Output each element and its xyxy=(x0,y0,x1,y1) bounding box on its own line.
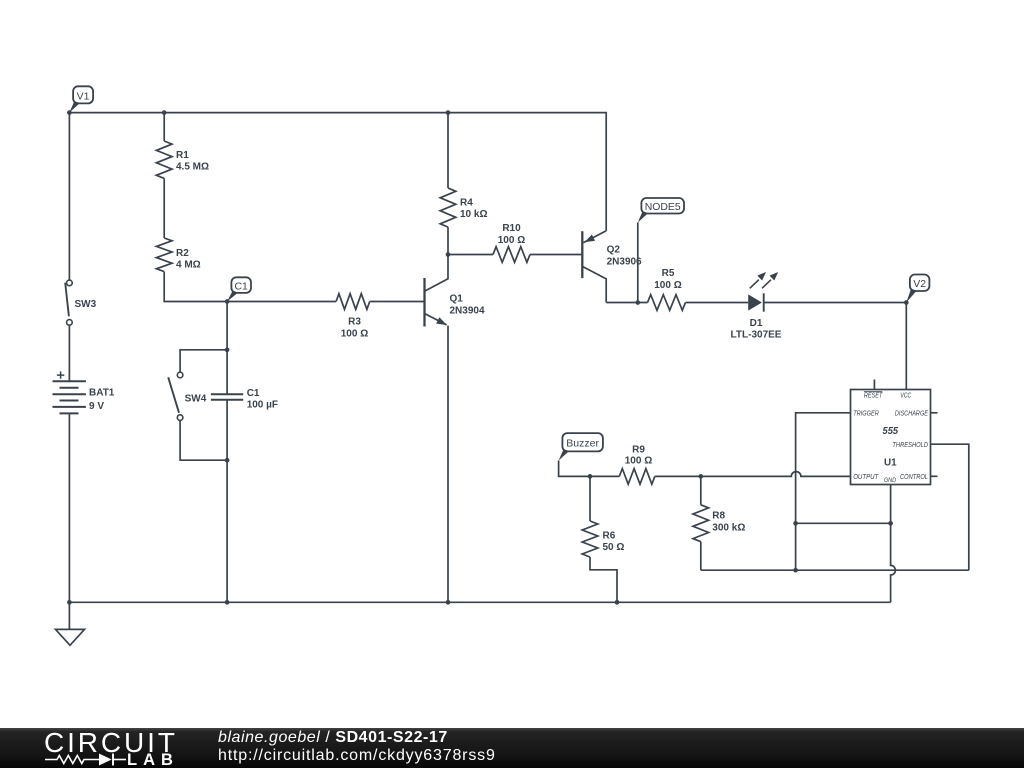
svg-text:NODE5: NODE5 xyxy=(645,201,681,213)
node R4 top junction dot xyxy=(446,110,451,115)
wire TRIGGER to vertical xyxy=(796,413,851,570)
svg-text:RESET: RESET xyxy=(864,392,883,399)
label SW3 xyxy=(75,299,97,310)
wire R3 to Q1 base xyxy=(370,301,425,303)
wire node to R10 xyxy=(448,254,493,256)
wire OUTPUT with hop xyxy=(655,472,851,477)
label C1 value xyxy=(247,388,278,411)
transistor Q2 xyxy=(582,231,606,303)
svg-text:C1: C1 xyxy=(247,388,260,399)
wire R2 to node C1 xyxy=(164,272,227,302)
capacitor C1 xyxy=(211,394,243,400)
wire SW4 top tap xyxy=(180,350,227,372)
label R10 xyxy=(498,223,525,246)
node SW4 top junction dot xyxy=(225,347,230,352)
svg-text:LTL-307EE: LTL-307EE xyxy=(731,330,782,341)
wire R8 top lead xyxy=(700,476,702,504)
label R9 xyxy=(625,445,652,467)
pin label TRIGGER xyxy=(853,411,879,418)
resistor R2 xyxy=(156,238,172,272)
pin label CONTROL xyxy=(900,474,928,481)
svg-text:R2: R2 xyxy=(176,248,189,259)
wire rail to R4 xyxy=(447,113,449,188)
wire R5 to D1 xyxy=(686,302,749,304)
label Q1 xyxy=(450,293,485,316)
CircuitLab logo xyxy=(40,728,230,768)
label R5 xyxy=(654,268,681,291)
svg-text:LAB: LAB xyxy=(127,751,179,768)
svg-text:THRESHOLD: THRESHOLD xyxy=(892,442,928,449)
ground xyxy=(56,602,85,645)
resistor R4 xyxy=(440,188,456,227)
label 555 xyxy=(883,425,899,437)
svg-text:9 V: 9 V xyxy=(89,401,104,412)
node trigger-gnd right dot xyxy=(888,521,893,526)
svg-text:100 Ω: 100 Ω xyxy=(498,235,525,246)
svg-text:SW3: SW3 xyxy=(75,299,97,310)
wire NODE5 stem xyxy=(637,223,639,303)
flag NODE5 xyxy=(638,198,684,223)
flag Buzzer xyxy=(559,433,603,460)
pin label DISCHARGE xyxy=(895,411,928,418)
resistor R10 xyxy=(493,247,530,263)
svg-text:R3: R3 xyxy=(348,317,361,328)
wire THRESHOLD right xyxy=(931,444,969,570)
wire SW3 to BAT1 xyxy=(68,325,70,381)
wire R1 to R2 xyxy=(163,178,165,238)
svg-text:10 kΩ: 10 kΩ xyxy=(460,209,487,220)
label Q2 xyxy=(607,245,642,268)
label R8 xyxy=(712,511,745,534)
wire node C1 to R3 xyxy=(227,301,336,303)
flag V1 xyxy=(69,86,93,112)
svg-text:R9: R9 xyxy=(632,445,645,456)
svg-text:OUTPUT: OUTPUT xyxy=(853,474,879,481)
wire R9 to buzzer corner xyxy=(559,461,620,477)
resistor R9 xyxy=(619,469,655,485)
node V1 junction dot xyxy=(67,110,72,115)
svg-text:V1: V1 xyxy=(77,90,90,102)
switch SW4 xyxy=(168,372,183,420)
svg-text:100 µF: 100 µF xyxy=(247,400,278,411)
wire V1 to SW3 xyxy=(68,113,70,281)
node R6 rail dot xyxy=(615,600,620,605)
footer banner xyxy=(0,728,1024,768)
node C1 bottom rail dot xyxy=(225,600,230,605)
diode D1 LED xyxy=(748,272,778,312)
wire V2 to VCC xyxy=(905,303,907,390)
label BAT1 xyxy=(89,388,115,413)
svg-text:C1: C1 xyxy=(234,281,248,293)
pin DISCHARGE stub xyxy=(931,412,938,414)
node trigger-gnd left dot xyxy=(793,521,798,526)
node ground rail dot xyxy=(67,600,72,605)
svg-text:4.5 MΩ: 4.5 MΩ xyxy=(176,162,209,173)
svg-text:100 Ω: 100 Ω xyxy=(625,456,652,467)
svg-text:R1: R1 xyxy=(176,150,189,161)
resistor R5 xyxy=(648,295,686,311)
svg-text:R8: R8 xyxy=(712,511,725,522)
label U1 xyxy=(884,457,897,469)
wire BAT1 to bottom rail xyxy=(68,413,70,602)
wire rail to R1 xyxy=(163,113,165,141)
label D1 xyxy=(731,318,782,341)
svg-text:BAT1: BAT1 xyxy=(89,388,115,399)
svg-text:4 MΩ: 4 MΩ xyxy=(176,260,201,271)
footer text line 1 xyxy=(218,729,448,747)
svg-text:R6: R6 xyxy=(603,531,616,542)
node R8 top junction dot xyxy=(698,474,703,479)
node R1 top junction dot xyxy=(162,110,167,115)
wire R6 bottom to rail xyxy=(590,557,617,602)
node SW4 bottom junction dot xyxy=(225,458,230,463)
pin CONTROL stub xyxy=(931,475,938,477)
svg-text:300 kΩ: 300 kΩ xyxy=(712,523,745,534)
wire R6 top lead xyxy=(589,476,591,521)
label R2 xyxy=(176,248,201,271)
svg-text:R4: R4 xyxy=(460,198,473,209)
pin label OUTPUT xyxy=(853,474,879,481)
node C1 junction dot xyxy=(225,299,230,304)
node V2 junction dot xyxy=(904,300,909,305)
wire bottom rail xyxy=(69,601,890,603)
wire SW4 bottom tap xyxy=(180,420,227,460)
resistor R6 xyxy=(582,521,598,557)
wire R8 bottom to threshold xyxy=(701,569,969,571)
svg-text:100 Ω: 100 Ω xyxy=(654,280,681,291)
svg-text:TRIGGER: TRIGGER xyxy=(853,411,879,418)
resistor R8 xyxy=(693,505,709,542)
svg-text:CONTROL: CONTROL xyxy=(900,474,928,481)
wire Q2 collector to R5 xyxy=(606,302,647,304)
svg-text:2N3904: 2N3904 xyxy=(450,305,485,316)
label R6 xyxy=(603,531,625,554)
wire Q1 emitter to rail xyxy=(447,326,449,603)
svg-text:555: 555 xyxy=(883,425,899,437)
resistor R1 xyxy=(156,141,172,178)
svg-text:100 Ω: 100 Ω xyxy=(341,328,368,339)
svg-text:2N3906: 2N3906 xyxy=(607,257,642,268)
flag C1 xyxy=(227,277,251,301)
resistor R3 xyxy=(336,294,370,310)
wire R10 to Q2 base xyxy=(530,254,582,256)
svg-text:V2: V2 xyxy=(913,278,926,290)
pin label GND xyxy=(884,477,897,484)
pin label THRESHOLD xyxy=(892,442,928,449)
pin RESET stub xyxy=(873,380,875,390)
wire R8 bottom lead xyxy=(700,542,702,571)
label R1 xyxy=(176,150,209,173)
svg-text:Q1: Q1 xyxy=(450,293,464,304)
node NODE5 junction dot xyxy=(635,300,640,305)
svg-text:R10: R10 xyxy=(502,223,521,234)
switch SW3 xyxy=(65,280,72,325)
label R4 xyxy=(460,198,487,221)
pin label RESET xyxy=(864,392,883,400)
svg-text:SW4: SW4 xyxy=(185,394,207,405)
transistor Q1 xyxy=(425,255,449,327)
wire trigger to GND pin xyxy=(796,522,891,524)
svg-text:R5: R5 xyxy=(662,268,675,279)
footer text line 2 xyxy=(218,747,496,765)
op-amp U1 555 box xyxy=(851,390,931,485)
wire D1 to V2 xyxy=(764,302,907,304)
wire GND pin down with hop xyxy=(891,485,896,603)
node R6 top junction dot xyxy=(588,474,593,479)
svg-text:Buzzer: Buzzer xyxy=(566,438,599,450)
flag V2 xyxy=(906,275,929,303)
svg-text:50 Ω: 50 Ω xyxy=(603,542,625,553)
wire node C1 down to capacitor xyxy=(226,302,228,395)
label R3 xyxy=(341,317,368,340)
node Q1 emitter rail dot xyxy=(446,600,451,605)
svg-text:DISCHARGE: DISCHARGE xyxy=(895,411,928,418)
wire capacitor to rail xyxy=(226,400,228,603)
node R4 bottom junction dot xyxy=(446,252,451,257)
svg-text:D1: D1 xyxy=(750,318,763,329)
svg-text:Q2: Q2 xyxy=(607,245,621,256)
svg-text:VCC: VCC xyxy=(900,392,912,399)
svg-text:U1: U1 xyxy=(884,457,897,469)
svg-text:GND: GND xyxy=(884,477,897,484)
label SW4 xyxy=(185,394,207,405)
battery BAT1 xyxy=(53,371,86,413)
wire R4 to node xyxy=(447,227,449,254)
pin label VCC xyxy=(900,392,912,399)
wire top rail V1 to Q2 emitter xyxy=(69,113,606,231)
node trigger bottom dot xyxy=(793,568,798,573)
